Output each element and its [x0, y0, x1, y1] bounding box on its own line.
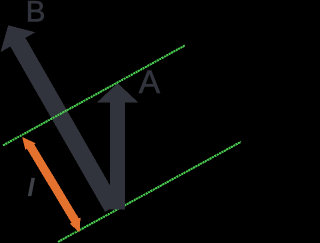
vector B	[1, 25, 121, 212]
distance arrow l	[22, 137, 80, 233]
upper parallel line	[3, 45, 185, 145]
svg-text:A: A	[139, 64, 161, 100]
vector A	[97, 83, 139, 209]
svg-text:B: B	[26, 0, 46, 28]
lower parallel line	[58, 142, 241, 242]
svg-text:l: l	[28, 174, 36, 202]
